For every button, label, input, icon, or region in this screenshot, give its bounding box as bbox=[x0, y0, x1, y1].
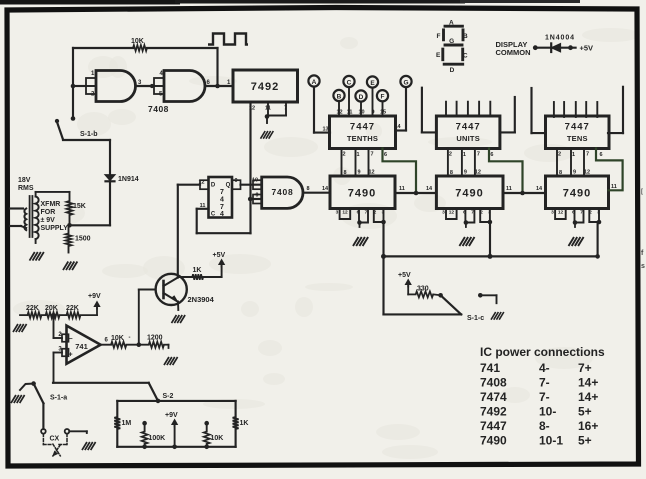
svg-text:1500: 1500 bbox=[75, 236, 91, 243]
svg-text:12: 12 bbox=[475, 170, 481, 176]
svg-text:8: 8 bbox=[450, 170, 453, 176]
svg-text:16+: 16+ bbox=[578, 419, 598, 433]
svg-text:7408: 7408 bbox=[271, 187, 293, 197]
svg-text:1200: 1200 bbox=[147, 335, 163, 342]
svg-text:+5V: +5V bbox=[580, 44, 594, 53]
svg-text:7408: 7408 bbox=[148, 104, 169, 114]
svg-text:S-1-b: S-1-b bbox=[80, 131, 98, 138]
svg-text:7+: 7+ bbox=[578, 361, 592, 375]
svg-text:7447: 7447 bbox=[565, 122, 590, 133]
svg-text:G: G bbox=[403, 80, 408, 87]
svg-text:12: 12 bbox=[449, 210, 455, 216]
svg-text:10K: 10K bbox=[211, 435, 224, 442]
svg-text:11: 11 bbox=[506, 186, 512, 192]
svg-text:7: 7 bbox=[370, 152, 373, 158]
svg-text:9: 9 bbox=[371, 110, 374, 116]
svg-text:S-1-a: S-1-a bbox=[50, 395, 67, 402]
svg-text:E: E bbox=[436, 52, 441, 59]
svg-text:UNITS: UNITS bbox=[456, 134, 480, 143]
svg-text:20K: 20K bbox=[45, 305, 58, 312]
svg-text:2N3904: 2N3904 bbox=[188, 295, 215, 304]
svg-text:A: A bbox=[312, 79, 317, 86]
svg-text:7-: 7- bbox=[539, 390, 550, 404]
svg-text:7492: 7492 bbox=[480, 405, 507, 419]
svg-text:9: 9 bbox=[573, 170, 576, 176]
svg-text:2: 2 bbox=[558, 152, 561, 158]
svg-text:330: 330 bbox=[417, 285, 429, 292]
svg-text:7490: 7490 bbox=[348, 188, 376, 200]
svg-text:15: 15 bbox=[380, 110, 386, 116]
svg-text:14: 14 bbox=[322, 186, 329, 192]
svg-text:C: C bbox=[211, 212, 216, 218]
svg-text:1K: 1K bbox=[240, 420, 249, 427]
svg-text:B: B bbox=[463, 33, 468, 40]
svg-text:2: 2 bbox=[449, 152, 452, 158]
svg-text:s: s bbox=[641, 263, 645, 270]
svg-text:7-: 7- bbox=[539, 376, 550, 390]
svg-text:8: 8 bbox=[307, 186, 310, 192]
svg-text:8: 8 bbox=[343, 170, 346, 176]
svg-text:E: E bbox=[370, 80, 375, 87]
svg-text:10-1: 10-1 bbox=[539, 434, 563, 448]
svg-text:3: 3 bbox=[597, 210, 600, 216]
svg-text:9: 9 bbox=[357, 170, 360, 176]
svg-text:1N914: 1N914 bbox=[118, 176, 139, 183]
svg-text:F: F bbox=[437, 33, 441, 40]
svg-text:−: − bbox=[68, 336, 72, 343]
svg-text:B: B bbox=[337, 94, 342, 101]
svg-text:10: 10 bbox=[358, 110, 364, 116]
svg-text:6: 6 bbox=[463, 210, 466, 216]
svg-text:7447: 7447 bbox=[350, 122, 375, 133]
svg-text:2: 2 bbox=[342, 152, 345, 158]
svg-text:7: 7 bbox=[220, 189, 224, 196]
svg-text:7447: 7447 bbox=[480, 419, 507, 433]
svg-text:1: 1 bbox=[463, 152, 466, 158]
svg-text:10-: 10- bbox=[539, 405, 556, 419]
svg-text:A: A bbox=[449, 19, 454, 26]
svg-text:1N4004: 1N4004 bbox=[545, 35, 575, 42]
svg-text:8-: 8- bbox=[539, 419, 550, 433]
svg-text:+: + bbox=[68, 352, 72, 359]
svg-text:7474: 7474 bbox=[480, 390, 507, 404]
svg-text:3: 3 bbox=[488, 210, 491, 216]
svg-text:TENS: TENS bbox=[567, 134, 588, 143]
svg-text:9: 9 bbox=[255, 193, 258, 199]
svg-text:F: F bbox=[381, 94, 385, 101]
svg-text:4-: 4- bbox=[539, 361, 550, 375]
svg-text:FOR: FOR bbox=[41, 209, 56, 216]
svg-text:18V: 18V bbox=[18, 177, 31, 184]
svg-text:+9V: +9V bbox=[165, 412, 178, 419]
svg-text:11: 11 bbox=[399, 186, 405, 192]
svg-text:3: 3 bbox=[551, 210, 554, 216]
svg-text:5+: 5+ bbox=[578, 405, 592, 419]
svg-text:S-1-c: S-1-c bbox=[467, 315, 484, 322]
svg-text:4: 4 bbox=[220, 211, 224, 218]
svg-text:7: 7 bbox=[471, 210, 474, 216]
svg-text:10K: 10K bbox=[111, 335, 124, 342]
svg-text:6: 6 bbox=[357, 210, 360, 216]
svg-text:14: 14 bbox=[426, 186, 433, 192]
svg-text:TENTHS: TENTHS bbox=[347, 134, 378, 143]
svg-text:12: 12 bbox=[342, 210, 348, 216]
svg-text:[: [ bbox=[641, 189, 643, 195]
svg-text:12: 12 bbox=[368, 170, 374, 176]
svg-text:3: 3 bbox=[336, 210, 339, 216]
svg-text:9: 9 bbox=[464, 170, 467, 176]
svg-text:2: 2 bbox=[374, 210, 377, 216]
svg-text:12: 12 bbox=[558, 210, 564, 216]
svg-text:7: 7 bbox=[586, 152, 589, 158]
svg-text:7447: 7447 bbox=[456, 122, 481, 133]
svg-text:7490: 7490 bbox=[480, 434, 507, 448]
svg-text:22K: 22K bbox=[26, 305, 39, 312]
svg-text:7492: 7492 bbox=[251, 81, 279, 93]
svg-text:8: 8 bbox=[559, 170, 562, 176]
svg-text:± 9V: ± 9V bbox=[41, 217, 56, 224]
svg-text:SUPPLY: SUPPLY bbox=[41, 225, 69, 232]
svg-text:100K: 100K bbox=[149, 435, 166, 442]
svg-text:6: 6 bbox=[384, 152, 387, 158]
svg-text:1M: 1M bbox=[122, 420, 132, 427]
svg-text:CX: CX bbox=[50, 436, 60, 443]
svg-text:S-2: S-2 bbox=[163, 393, 174, 400]
svg-text:6: 6 bbox=[572, 210, 575, 216]
svg-text:11: 11 bbox=[611, 184, 617, 190]
svg-text:12: 12 bbox=[336, 110, 342, 116]
svg-text:2: 2 bbox=[589, 210, 592, 216]
svg-text:12: 12 bbox=[584, 170, 590, 176]
svg-text:7: 7 bbox=[580, 210, 583, 216]
svg-text:4: 4 bbox=[220, 197, 224, 204]
svg-text:D: D bbox=[450, 67, 455, 74]
svg-text:2: 2 bbox=[480, 210, 483, 216]
svg-text:14+: 14+ bbox=[578, 376, 598, 390]
svg-text:+5V: +5V bbox=[213, 252, 226, 259]
svg-text:D: D bbox=[359, 94, 364, 101]
svg-text:741: 741 bbox=[480, 361, 500, 375]
svg-text:Q: Q bbox=[226, 183, 231, 189]
svg-text:7408: 7408 bbox=[480, 376, 507, 390]
svg-text:1: 1 bbox=[572, 152, 575, 158]
svg-text:C: C bbox=[463, 53, 468, 60]
svg-text:XFMR: XFMR bbox=[41, 201, 61, 208]
svg-text:10: 10 bbox=[252, 178, 258, 184]
svg-text:13: 13 bbox=[323, 127, 329, 133]
svg-text:3: 3 bbox=[442, 210, 445, 216]
svg-text:14: 14 bbox=[394, 124, 401, 130]
svg-text:7490: 7490 bbox=[455, 188, 483, 200]
svg-text:22K: 22K bbox=[66, 305, 79, 312]
svg-text:IC power connections: IC power connections bbox=[480, 345, 605, 359]
svg-text:RMS: RMS bbox=[18, 185, 34, 192]
svg-text:D: D bbox=[211, 183, 216, 189]
svg-text:+9V: +9V bbox=[88, 293, 101, 300]
svg-text:15K: 15K bbox=[73, 203, 86, 210]
svg-text:+5V: +5V bbox=[398, 272, 411, 279]
svg-text:3: 3 bbox=[382, 210, 385, 216]
svg-text:1K: 1K bbox=[193, 267, 202, 274]
svg-text:C: C bbox=[347, 80, 352, 87]
svg-text:6: 6 bbox=[599, 152, 602, 158]
svg-text:COMMON: COMMON bbox=[496, 48, 531, 57]
svg-text:7: 7 bbox=[365, 210, 368, 216]
svg-text:-: - bbox=[129, 335, 131, 341]
svg-text:1: 1 bbox=[356, 152, 359, 158]
svg-text:10K: 10K bbox=[131, 38, 144, 45]
svg-text:7: 7 bbox=[220, 204, 224, 211]
svg-text:6: 6 bbox=[490, 152, 493, 158]
svg-text:7490: 7490 bbox=[563, 188, 591, 200]
svg-text:7: 7 bbox=[477, 152, 480, 158]
svg-text:G: G bbox=[449, 38, 454, 45]
svg-text:11: 11 bbox=[347, 110, 353, 116]
svg-text:14+: 14+ bbox=[578, 390, 598, 404]
svg-text:741: 741 bbox=[75, 342, 88, 351]
svg-text:14: 14 bbox=[536, 186, 543, 192]
svg-text:5+: 5+ bbox=[578, 434, 592, 448]
